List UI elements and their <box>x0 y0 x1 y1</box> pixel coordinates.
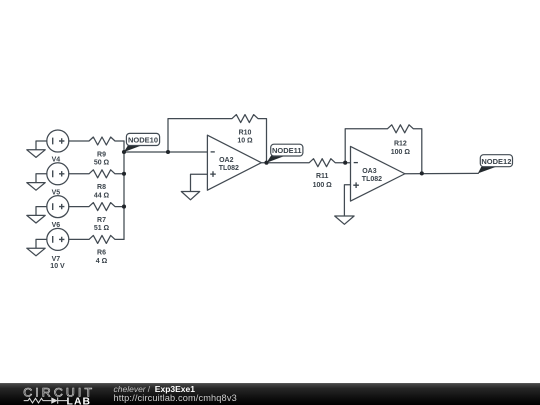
svg-text:4 Ω: 4 Ω <box>96 258 108 265</box>
svg-text:100 Ω: 100 Ω <box>313 182 333 189</box>
svg-text:R10: R10 <box>239 129 252 136</box>
svg-text:http://circuitlab.com/cmhq8v3: http://circuitlab.com/cmhq8v3 <box>114 393 237 403</box>
svg-text:51 Ω: 51 Ω <box>94 225 110 232</box>
svg-text:44 Ω: 44 Ω <box>94 192 110 199</box>
svg-text:50 Ω: 50 Ω <box>94 160 110 167</box>
svg-text:R11: R11 <box>316 173 329 180</box>
svg-text:TL082: TL082 <box>362 176 382 183</box>
svg-text:V4: V4 <box>52 157 61 164</box>
svg-text:10 Ω: 10 Ω <box>237 138 253 145</box>
svg-text:R9: R9 <box>97 151 106 158</box>
svg-text:TL082: TL082 <box>219 165 239 172</box>
svg-text:100 Ω: 100 Ω <box>391 149 411 156</box>
svg-text:R7: R7 <box>97 217 106 224</box>
svg-text:NODE10: NODE10 <box>128 136 158 145</box>
svg-text:R8: R8 <box>97 184 106 191</box>
svg-text:NODE11: NODE11 <box>272 146 302 155</box>
svg-text:V7: V7 <box>52 256 61 263</box>
svg-text:R6: R6 <box>97 250 106 257</box>
svg-text:LAB: LAB <box>67 396 92 405</box>
svg-text:V5: V5 <box>52 189 61 196</box>
svg-text:V6: V6 <box>52 222 61 229</box>
svg-text:R12: R12 <box>394 141 407 148</box>
svg-text:OA2: OA2 <box>219 157 234 164</box>
svg-text:10 V: 10 V <box>50 263 65 270</box>
svg-text:NODE12: NODE12 <box>481 157 511 166</box>
svg-text:OA3: OA3 <box>362 168 377 175</box>
